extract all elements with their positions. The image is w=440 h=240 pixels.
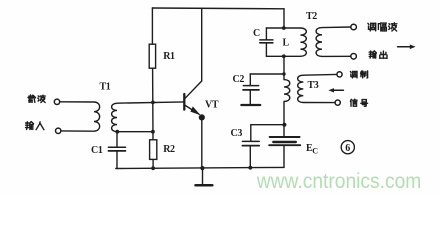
watermark www.cntronics.com	[256, 170, 421, 193]
wire: T2 secondary top to output terminal	[322, 26, 351, 29]
terminal: modulation top	[337, 72, 342, 77]
transformer T3 secondary winding	[298, 75, 304, 102]
transformer T2 secondary winding	[316, 28, 322, 57]
wire: R2 bottom to ground bus	[152, 159, 154, 168]
svg-text:VT: VT	[205, 99, 219, 110]
transformer T3 primary winding	[284, 80, 290, 102]
terminal: AM output bottom	[351, 54, 357, 60]
label C2	[233, 74, 245, 85]
label T1	[100, 82, 111, 93]
label 输出 (output)	[369, 51, 387, 58]
capacitor C1	[108, 132, 125, 169]
terminal: carrier input top	[54, 99, 59, 104]
terminal: carrier input bottom	[56, 128, 61, 133]
label 信号 (signal)	[350, 99, 367, 106]
wire: T1 secondary top to base	[117, 102, 184, 103]
ground	[196, 168, 213, 185]
node: R branch / bottom wire junction	[151, 130, 155, 134]
arrow: output direction	[398, 45, 416, 50]
battery EC plates	[269, 137, 300, 167]
svg-text:C3: C3	[231, 128, 243, 139]
label C3	[231, 128, 243, 139]
label EC	[306, 143, 318, 155]
svg-text:T3: T3	[308, 80, 319, 91]
resistor R2	[150, 140, 157, 160]
svg-text:L: L	[283, 38, 290, 49]
wire: T3 primary to battery junction	[283, 101, 285, 136]
wire: T3 secondary bottom to signal terminal	[303, 102, 335, 104]
wire: left vertical branch (R1 bias chain)	[151, 8, 154, 140]
label VT	[205, 99, 219, 110]
wire: T1 secondary bottom to R2 branch	[117, 131, 153, 133]
wire: junction to C3	[251, 124, 285, 126]
marker: circled 6	[341, 141, 354, 155]
node: C3 / bottom wire junction	[248, 166, 252, 170]
wire: T2 secondary bottom to output terminal	[322, 55, 351, 57]
wire: tank bottom rail	[266, 55, 300, 57]
capacitor C (tank)	[260, 28, 273, 56]
svg-text:R1: R1	[163, 51, 175, 62]
terminal: signal bottom	[335, 100, 340, 105]
node: T1 secondary bottom junction	[115, 130, 119, 134]
node: tank top junction	[282, 26, 286, 30]
node: C2 tee junction	[282, 72, 285, 75]
svg-text:6: 6	[345, 143, 350, 154]
arrow: modulation input direction	[328, 88, 343, 92]
svg-text:C: C	[312, 146, 318, 155]
capacitor C2	[241, 74, 284, 105]
inductor L / transformer T2 primary	[300, 28, 306, 56]
node: battery top junction	[282, 123, 286, 127]
label 输入 (input)	[26, 122, 44, 130]
svg-text:C1: C1	[91, 145, 103, 156]
capacitor C3	[242, 125, 259, 168]
resistor R1	[149, 44, 155, 68]
terminal: AM output top	[351, 24, 357, 30]
label C1	[91, 145, 103, 156]
transformer T1 primary winding	[94, 102, 100, 131]
label C	[253, 28, 260, 39]
label R1	[163, 51, 175, 62]
wire: bottom terminal to T1 primary	[61, 130, 94, 132]
svg-text:www.cntronics.com: www.cntronics.com	[256, 170, 421, 193]
svg-text:T1: T1	[100, 82, 111, 93]
label 调制 (modulation)	[350, 71, 367, 78]
label T2	[306, 11, 317, 22]
node: base wire / R1 branch junction	[151, 101, 155, 105]
svg-text:C2: C2	[233, 74, 245, 85]
transistor VT collector lead	[185, 8, 202, 98]
label R2	[163, 144, 175, 155]
wire: tank top rail	[266, 27, 300, 29]
wire: top terminal to T1 primary	[60, 101, 94, 103]
wire: T3 secondary top to modulation terminal	[303, 73, 337, 76]
transistor VT emitter lead with arrow	[185, 105, 205, 168]
node: emitter/ground junction	[200, 166, 204, 170]
svg-text:R2: R2	[163, 144, 175, 155]
label 载波 (carrier)	[28, 95, 45, 103]
label 调幅波 (AM wave)	[368, 23, 397, 31]
node: R2/ground bus junction	[151, 166, 155, 170]
transistor VT base bar	[183, 94, 185, 110]
wire: vertical branch tank to C2 tee	[283, 56, 285, 79]
node: tank bottom junction	[282, 54, 286, 58]
label T3	[308, 80, 319, 91]
wire: top supply bus	[152, 7, 284, 10]
transformer T1 secondary winding	[112, 103, 117, 131]
svg-text:C: C	[253, 28, 260, 39]
wire: right vertical branch from top bus	[283, 9, 285, 28]
svg-text:T2: T2	[306, 11, 317, 22]
label L	[283, 38, 290, 49]
wire: emitter/ground bus (bottom)	[116, 167, 284, 168]
